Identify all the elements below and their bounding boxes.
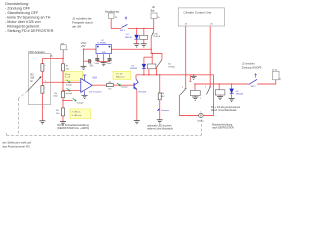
svg-text:-: - bbox=[82, 82, 83, 85]
diode D5 bbox=[231, 84, 233, 89]
svg-text:100n: 100n bbox=[90, 66, 94, 68]
svg-text:0...5V: 0...5V bbox=[65, 77, 71, 79]
svg-text:1: LED aus: 1: LED aus bbox=[72, 115, 82, 117]
svg-text:100nF: 100nF bbox=[107, 63, 112, 65]
svg-text:J2 simuliert: J2 simuliert bbox=[242, 62, 255, 65]
relay K1 coil bbox=[143, 28, 145, 35]
wire Zuendung bbox=[195, 83, 249, 85]
wire testpoint bbox=[63, 100, 73, 102]
svg-text:- Zündung OFF: - Zündung OFF bbox=[5, 7, 31, 11]
label R3 bbox=[31, 74, 35, 82]
svg-text:100nF: 100nF bbox=[94, 63, 99, 65]
highlight yellow 3 bbox=[70, 109, 91, 119]
potentiometer R3 top bbox=[41, 59, 43, 64]
relay K4 bbox=[144, 56, 152, 58]
svg-text:1: 1 bbox=[67, 49, 68, 51]
svg-text:TDF1A: TDF1A bbox=[168, 65, 175, 68]
relay K2 contact bbox=[189, 75, 191, 81]
svg-text:Klimagerät getrennt: Klimagerät getrennt bbox=[7, 25, 39, 29]
svg-text:nach DEFROSTER: nach DEFROSTER bbox=[212, 126, 234, 129]
svg-text:U3A: U3A bbox=[92, 77, 97, 80]
ground D1 bbox=[134, 44, 140, 47]
relay K3 contact bbox=[203, 75, 213, 116]
resistor R1 bbox=[62, 59, 64, 64]
coil K4 bbox=[148, 64, 156, 69]
svg-text:Testwp4: Testwp4 bbox=[66, 92, 73, 95]
regulator rail VCC bbox=[84, 48, 97, 50]
svg-text:U > 2V:: U > 2V: bbox=[116, 72, 123, 75]
ground R6 bbox=[157, 120, 163, 123]
svg-text:+5V: +5V bbox=[81, 44, 86, 48]
wire Q1 emitter to ground bbox=[136, 90, 138, 121]
highlight yellow 1 bbox=[64, 72, 83, 81]
svg-text:30: 30 bbox=[158, 17, 160, 19]
box Climate Control Unit bbox=[178, 8, 224, 26]
ground K2 coil bbox=[192, 97, 198, 100]
capacitor C3 bbox=[83, 49, 85, 66]
svg-text:FD ist:: FD ist: bbox=[65, 73, 71, 76]
testpoint TP2 bbox=[67, 88, 69, 90]
highlight yellow 2 bbox=[113, 71, 131, 79]
svg-text:TL780S05: TL780S05 bbox=[97, 42, 106, 44]
op-amp U3A bbox=[81, 78, 92, 92]
svg-text:FDK Actuator: FDK Actuator bbox=[28, 50, 45, 54]
wire pin 20 bbox=[185, 26, 187, 88]
switch J2 bbox=[249, 79, 257, 84]
wire Q1 collector bbox=[135, 75, 137, 80]
motor M1 bbox=[199, 113, 203, 117]
wiper arrow bbox=[27, 78, 40, 92]
svg-text:Relais an: Relais an bbox=[116, 77, 124, 79]
resistor R4 bbox=[62, 91, 65, 98]
wire bbox=[62, 50, 64, 53]
capacitor C1 bbox=[96, 54, 98, 59]
svg-text:Climate Control Unit: Climate Control Unit bbox=[184, 10, 212, 14]
svg-text:während des Motorlaufs: während des Motorlaufs bbox=[147, 127, 173, 130]
svg-text:(DEFROSTER bzw. +12R%): (DEFROSTER bzw. +12R%) bbox=[57, 127, 89, 130]
svg-text:3: 3 bbox=[205, 86, 206, 88]
wire motor left bbox=[179, 95, 198, 116]
svg-text:Testwp1: Testwp1 bbox=[66, 84, 73, 87]
transistor Q1 bbox=[133, 83, 135, 89]
svg-text:K1 A: K1 A bbox=[153, 32, 158, 35]
ground K3 coil bbox=[217, 97, 223, 100]
node Zuendung junctions bbox=[194, 83, 195, 84]
capacitor C2 bbox=[109, 54, 111, 59]
wire divider to opamp plus bbox=[63, 90, 81, 92]
svg-text:Bat: Bat bbox=[151, 10, 155, 13]
wire bbox=[128, 27, 154, 29]
note Grundstellung bbox=[5, 2, 54, 33]
testpoint TP3 bbox=[73, 98, 75, 100]
wire opamp out bbox=[92, 84, 106, 86]
ground Q1 bbox=[134, 121, 140, 124]
svg-text:- Stellung FD # DEFROSTER: - Stellung FD # DEFROSTER bbox=[5, 29, 54, 33]
svg-text:Grundstellung:: Grundstellung: bbox=[5, 2, 29, 6]
relay K1 contact bbox=[151, 31, 153, 36]
wire bbox=[153, 19, 155, 32]
svg-text:1/3 TLC2272: 1/3 TLC2272 bbox=[89, 92, 102, 94]
svg-text:- keine 5V-Spannung an TH: - keine 5V-Spannung an TH bbox=[5, 16, 51, 20]
svg-text:TDF1 A: TDF1 A bbox=[153, 35, 160, 38]
svg-text:5: 5 bbox=[200, 98, 201, 100]
ground pot bbox=[39, 121, 45, 124]
ground opamp bbox=[82, 95, 88, 98]
svg-text:Zündung ON/OFF: Zündung ON/OFF bbox=[242, 67, 262, 70]
ground K1 coil bbox=[141, 44, 147, 47]
svg-text:1: 1 bbox=[44, 107, 45, 109]
resistor R8 bbox=[106, 84, 113, 87]
testpoint TP4 bbox=[117, 83, 119, 85]
opamp power bbox=[84, 75, 86, 80]
wire pin 26 bbox=[209, 26, 211, 87]
svg-text:das Potentiometer R3: das Potentiometer R3 bbox=[3, 144, 30, 148]
switch J1 bbox=[121, 24, 127, 27]
rail 12V switched bbox=[136, 74, 214, 76]
svg-text:- Motor über K3/5 von: - Motor über K3/5 von bbox=[5, 20, 41, 24]
svg-text:die SH: die SH bbox=[72, 25, 81, 29]
testpoint TP1 bbox=[67, 80, 69, 82]
wire bbox=[257, 80, 276, 84]
relay K2 coil bbox=[190, 90, 200, 95]
svg-text:M: M bbox=[200, 115, 202, 118]
svg-text:Summer: Summer bbox=[161, 109, 169, 112]
resistor R9 bbox=[62, 108, 65, 116]
svg-text:30a: 30a bbox=[279, 79, 281, 81]
netlabel Summer bbox=[157, 109, 159, 111]
ground R9 bbox=[60, 122, 66, 125]
note J1 bbox=[72, 17, 93, 29]
svg-text:Testwp3: Testwp3 bbox=[121, 86, 128, 89]
relay K3 coil bbox=[215, 90, 225, 95]
resistor R6 bbox=[159, 75, 161, 93]
svg-text:3: 3 bbox=[182, 87, 183, 89]
ground U2 bbox=[103, 54, 105, 63]
contact K4 bbox=[157, 60, 162, 67]
svg-text:Zweif. Umschalt-Relais: Zweif. Umschalt-Relais bbox=[211, 109, 237, 112]
ground D5 bbox=[229, 98, 235, 101]
node SH bbox=[143, 28, 144, 29]
wire bbox=[111, 19, 121, 29]
svg-text:- Standheizung OFF: - Standheizung OFF bbox=[5, 11, 39, 15]
wire K1 out bbox=[151, 37, 162, 60]
dashed mech link bbox=[7, 91, 202, 135]
svg-text:stellmot: stellmot bbox=[197, 120, 204, 123]
svg-text:1N4148: 1N4148 bbox=[236, 94, 244, 96]
diode D2 bbox=[143, 57, 145, 64]
svg-text:BC547b: BC547b bbox=[139, 91, 147, 93]
svg-text:1N4148: 1N4148 bbox=[130, 68, 138, 70]
potentiometer R3 bottom bbox=[41, 86, 44, 94]
wire 5V rail bbox=[42, 58, 63, 60]
svg-text:1N4148: 1N4148 bbox=[125, 37, 133, 39]
diode D1 bbox=[136, 28, 138, 34]
svg-text:Testwp2: Testwp2 bbox=[77, 102, 84, 105]
svg-text:7: LED an: 7: LED an bbox=[72, 112, 81, 114]
ground rail bbox=[193, 75, 195, 77]
